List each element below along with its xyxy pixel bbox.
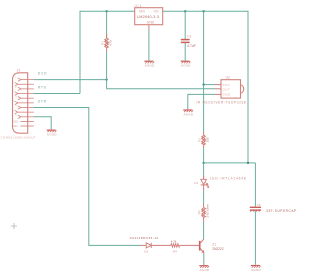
wire DCD to U2 OUT <box>107 80 215 89</box>
svg-text:OUT: OUT <box>223 87 231 91</box>
svg-text:5: 5 <box>15 114 17 117</box>
wire RTS net <box>34 93 80 95</box>
svg-text:2: 2 <box>15 86 17 89</box>
wire emitter to ground <box>203 253 205 265</box>
connector J1 DB9 body <box>13 68 28 133</box>
wire top rail VIN side <box>80 11 135 93</box>
svg-text:R3: R3 <box>197 210 201 214</box>
wire U2 GND to ground <box>188 94 215 109</box>
svg-text:CONN1LXD6LX00ILP: CONN1LXD6LX00ILP <box>1 135 36 139</box>
wire GND pin5 to ground <box>34 117 51 130</box>
svg-text:R1: R1 <box>101 41 105 45</box>
svg-text:J1: J1 <box>17 68 21 72</box>
ground AGND under transistor <box>199 266 209 268</box>
svg-text:4: 4 <box>15 105 17 108</box>
node junction R1 top <box>105 10 107 12</box>
svg-text:GND: GND <box>147 21 155 25</box>
svg-text:U2: U2 <box>226 76 230 80</box>
wire U2 VCC branch <box>203 11 205 84</box>
svg-text:R4: R4 <box>173 250 177 254</box>
svg-text:6: 6 <box>13 81 15 84</box>
resistor R4 4.7k <box>163 240 199 254</box>
svg-text:RTS: RTS <box>38 85 47 89</box>
svg-text:1N4148DO35-10: 1N4148DO35-10 <box>130 236 159 240</box>
svg-text:.33F-SUPERCAP: .33F-SUPERCAP <box>265 209 297 213</box>
capacitor C1 4.7uF <box>181 11 196 60</box>
wire VCC chain down <box>203 85 205 132</box>
svg-text:AGND: AGND <box>47 133 57 137</box>
svg-text:AGND: AGND <box>184 112 194 116</box>
connector J1 pin numbers <box>13 77 18 118</box>
svg-text:4.7k: 4.7k <box>108 40 112 46</box>
node junction rail drop <box>247 162 249 164</box>
svg-text:7: 7 <box>13 91 15 94</box>
svg-text:8: 8 <box>13 100 15 103</box>
svg-text:LED-IRTL414648: LED-IRTL414648 <box>210 177 247 181</box>
svg-text:AGND: AGND <box>200 268 210 272</box>
transistor Z1 2N2222 <box>200 239 224 253</box>
node junction U2 VCC branch top <box>202 10 204 12</box>
resistor R1 4.7k <box>101 11 113 79</box>
node origin cross <box>11 223 17 229</box>
svg-text:4.7uF: 4.7uF <box>187 44 196 48</box>
wire node to supercap branch <box>204 162 256 164</box>
svg-text:IC1: IC1 <box>135 4 143 8</box>
ground AGND under supercap <box>251 266 261 268</box>
node junction C1 top <box>184 10 186 12</box>
wire DCD net <box>34 79 107 81</box>
svg-text:2N2222: 2N2222 <box>212 247 223 251</box>
svg-text:AGND: AGND <box>145 64 155 68</box>
connector J1 pins 1,6,2,7,3,8,4,9,5 <box>15 78 34 119</box>
ground AGND under U2 <box>183 110 193 112</box>
resistor R2 <box>198 132 210 149</box>
diode D2 1N4148 <box>130 236 164 254</box>
svg-text:DCD: DCD <box>38 72 47 76</box>
svg-text:4.7k: 4.7k <box>171 240 177 244</box>
svg-text:AGND: AGND <box>251 268 261 272</box>
wire R2 to node <box>203 148 205 163</box>
svg-text:G11: G11 <box>13 124 18 128</box>
ground GND under connector <box>47 130 57 132</box>
svg-text:DTR: DTR <box>38 100 47 104</box>
svg-text:AGND: AGND <box>181 64 191 68</box>
svg-text:1: 1 <box>15 77 17 80</box>
svg-text:100: 100 <box>205 137 209 142</box>
LED D1 <box>194 163 246 191</box>
svg-text:3: 3 <box>15 95 17 98</box>
node junction U2 VCC <box>202 83 204 85</box>
op-amp U2 IR receiver TSOP <box>197 76 247 105</box>
svg-text:G10: G10 <box>13 120 18 124</box>
wire LED to R3 <box>203 191 205 205</box>
svg-text:2-10 Ohm: 2-10 Ohm <box>206 204 210 218</box>
ground AGND under C1 <box>181 61 191 63</box>
svg-text:VIN: VIN <box>139 9 145 13</box>
svg-text:LM2940-3.3: LM2940-3.3 <box>137 15 159 19</box>
ground AGND under regulator <box>144 61 154 63</box>
op-amp IC1 LM2940-3.3 regulator <box>135 4 163 30</box>
wire R3 to transistor collector <box>203 222 205 239</box>
wire regulator GND down <box>148 30 150 61</box>
wire DTR net down to bottom <box>34 108 140 246</box>
svg-text:GND: GND <box>223 93 231 97</box>
resistor R3 2-10 Ohm <box>197 204 210 222</box>
wire top rail VO side <box>163 11 248 163</box>
svg-text:D1: D1 <box>194 181 198 185</box>
connector J1 shield pins G10 G11 <box>21 122 34 126</box>
capacitor C3 supercap <box>250 163 297 265</box>
node junction LED supply <box>202 162 204 164</box>
svg-text:D2: D2 <box>144 250 148 254</box>
svg-text:9: 9 <box>13 109 15 112</box>
svg-text:R2: R2 <box>198 138 202 142</box>
svg-text:VCC: VCC <box>223 83 231 87</box>
svg-text:VO: VO <box>154 9 159 13</box>
svg-text:C3: C3 <box>257 203 261 207</box>
node junction DCD / R1 <box>105 78 107 80</box>
svg-text:C1: C1 <box>187 35 191 39</box>
